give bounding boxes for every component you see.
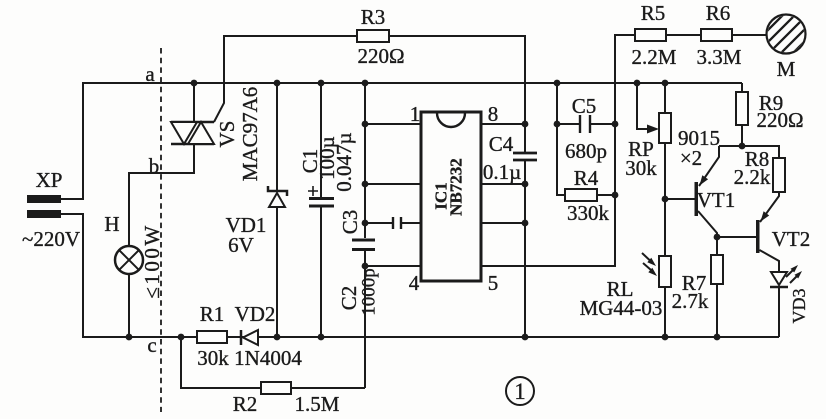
diode VD2 1N4004 xyxy=(243,330,258,345)
capacitor C2 xyxy=(352,240,375,250)
svg-text:5: 5 xyxy=(488,271,499,295)
resistor R3 xyxy=(357,30,389,42)
resistor R6 xyxy=(701,29,732,41)
svg-text:330k: 330k xyxy=(567,201,610,225)
wire triac gate diagonal and R3 left branch xyxy=(214,36,525,153)
svg-text:VT2: VT2 xyxy=(772,227,811,251)
svg-text:1N4004: 1N4004 xyxy=(234,346,302,370)
svg-text:R6: R6 xyxy=(706,1,731,25)
capacitor C4 xyxy=(524,160,526,337)
svg-text:0.1µ: 0.1µ xyxy=(483,160,521,184)
wire IC pin1 xyxy=(365,123,421,125)
wire IC pin8 to C4 column xyxy=(481,123,525,125)
IC U1 NB7232 xyxy=(421,112,481,281)
LED VD3 xyxy=(771,272,787,285)
transistor VT2 xyxy=(717,236,756,238)
photoresistor RL xyxy=(659,256,671,287)
zener diode VD1 xyxy=(276,83,278,337)
capacitor C3 to pin3 xyxy=(365,222,421,224)
wire R9 bottom node to R8 top xyxy=(719,146,779,158)
VT1 emitter xyxy=(699,146,719,186)
triac VS xyxy=(171,122,214,144)
svg-text:R2: R2 xyxy=(233,392,258,416)
resistor R5 xyxy=(635,29,666,41)
svg-text:VD3: VD3 xyxy=(789,289,809,324)
svg-text:R3: R3 xyxy=(361,5,386,29)
svg-text:1: 1 xyxy=(410,102,421,126)
svg-text:2.7k: 2.7k xyxy=(672,289,709,313)
svg-text:3.3M: 3.3M xyxy=(697,45,742,69)
capacitor C5 xyxy=(557,83,615,195)
capacitor C1 electrolytic xyxy=(320,83,322,337)
svg-text:VD2: VD2 xyxy=(235,302,276,326)
svg-text:1: 1 xyxy=(514,379,526,404)
wire IC pin6 to C4 column xyxy=(481,222,525,224)
svg-text:C5: C5 xyxy=(572,94,597,118)
svg-text:XP: XP xyxy=(36,168,63,192)
svg-text:6V: 6V xyxy=(228,233,254,257)
wire IC pin5 up to R5 line and on to touch plate M xyxy=(481,35,766,266)
svg-text:30k: 30k xyxy=(197,346,229,370)
wire lamp bottom to bottom rail xyxy=(128,274,130,337)
svg-text:VS: VS xyxy=(215,121,239,148)
svg-text:220Ω: 220Ω xyxy=(357,44,404,68)
figure number 1 xyxy=(506,377,534,405)
svg-text:1.5M: 1.5M xyxy=(295,392,340,416)
wire XP top prong to node a rail xyxy=(61,83,742,199)
touch plate M xyxy=(738,0,826,78)
wire triac MT2 lead from rail a xyxy=(193,83,195,122)
potentiometer RP xyxy=(664,83,666,256)
wire IC pin2 xyxy=(365,183,421,185)
resistor R2 xyxy=(261,382,291,394)
resistor R8 xyxy=(773,158,785,192)
VT2 collector xyxy=(760,250,780,272)
resistor R7 xyxy=(716,237,718,337)
wire IC pin4 xyxy=(365,265,421,267)
svg-text:0.047µ: 0.047µ xyxy=(332,132,356,191)
wire triac MT1 lead to node b line and lamp column xyxy=(129,144,194,246)
svg-text:M: M xyxy=(777,57,796,81)
svg-text:R5: R5 xyxy=(641,1,666,25)
svg-text:4: 4 xyxy=(409,271,420,295)
svg-text:H: H xyxy=(104,212,119,236)
svg-text:R4: R4 xyxy=(574,166,599,190)
svg-text:b: b xyxy=(149,154,160,178)
svg-text:C3: C3 xyxy=(338,210,362,235)
resistor R4 xyxy=(565,189,597,201)
resistor R9 xyxy=(741,83,743,146)
VT1 collector xyxy=(698,211,717,237)
svg-text:MAC97A6: MAC97A6 xyxy=(238,87,262,182)
svg-text:2.2M: 2.2M xyxy=(632,45,677,69)
svg-text:2.2k: 2.2k xyxy=(734,165,771,189)
svg-text:c: c xyxy=(147,333,156,357)
svg-text:8: 8 xyxy=(488,102,499,126)
svg-text:1000p: 1000p xyxy=(359,268,380,316)
transistor VT1 xyxy=(665,198,695,200)
plug XP xyxy=(27,195,61,203)
svg-text:~220V: ~220V xyxy=(22,227,80,251)
svg-text:220Ω: 220Ω xyxy=(756,108,803,132)
VT2 emitter xyxy=(760,192,779,222)
svg-text:a: a xyxy=(145,62,155,86)
wire XP bottom prong to bottom rail xyxy=(61,214,779,337)
lamp H xyxy=(115,246,143,274)
svg-text:VT1: VT1 xyxy=(697,188,736,212)
svg-text:C2: C2 xyxy=(337,286,361,311)
svg-text:C4: C4 xyxy=(489,132,514,156)
potentiometer RP wiper arrow xyxy=(637,83,647,129)
svg-text:R1: R1 xyxy=(200,302,225,326)
svg-text:≤100W: ≤100W xyxy=(140,223,164,298)
resistor R1 xyxy=(197,331,227,343)
svg-text:MG44-03: MG44-03 xyxy=(580,296,663,320)
wire C3/C2 column from rail a xyxy=(364,83,366,238)
svg-text:NB7232: NB7232 xyxy=(447,158,466,216)
svg-text:30k: 30k xyxy=(625,156,657,180)
dashed boundary line xyxy=(160,48,162,412)
svg-text:680p: 680p xyxy=(565,139,607,163)
wire IC pin7 to C4 column xyxy=(481,183,525,185)
resistor R2 branch wire xyxy=(181,337,365,388)
svg-text:×2: ×2 xyxy=(680,146,702,170)
